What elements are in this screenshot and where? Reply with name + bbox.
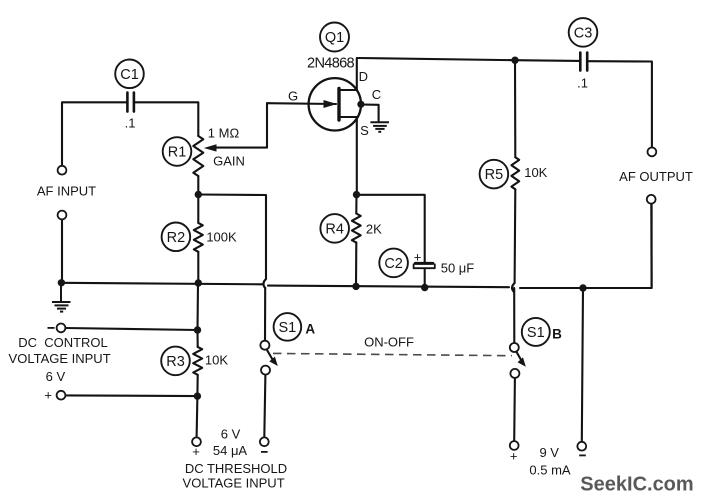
- minus sign (threshold): [261, 451, 268, 453]
- designator circle R2: [162, 223, 191, 252]
- ground (AF input bus): [52, 286, 71, 312]
- wire: C1 right plate to R1 top corner: [135, 102, 198, 136]
- resistor R4 2K: [352, 214, 361, 243]
- svg-text:0.5 mA: 0.5 mA: [529, 463, 571, 478]
- transistor Q1 2N4868 JFET envelope: [309, 78, 361, 130]
- svg-text:C2: C2: [384, 256, 403, 272]
- svg-text:C3: C3: [574, 26, 593, 42]
- junction: R3 bottom / DC control +: [194, 392, 201, 399]
- junction: C2 bottom at bus: [421, 284, 428, 291]
- svg-text:S1: S1: [527, 325, 545, 341]
- wire: R3 bottom zigzag to junction: [196, 375, 198, 396]
- wire: top rail from C3 right plate to AF output corner: [588, 61, 652, 147]
- svg-text:10K: 10K: [205, 353, 228, 368]
- svg-text:S1: S1: [279, 320, 297, 336]
- svg-text:R5: R5: [485, 167, 504, 183]
- designator circle C3: [569, 18, 598, 47]
- svg-text:10K: 10K: [524, 165, 547, 180]
- terminal: AF input bottom: [58, 211, 67, 220]
- svg-text:DC CONTROL: DC CONTROL: [18, 335, 108, 350]
- svg-text:A: A: [305, 322, 315, 337]
- capacitor C3: [580, 53, 587, 71]
- svg-text:100K: 100K: [206, 230, 237, 245]
- terminal: battery -: [577, 442, 586, 451]
- resistor R5 10K: [511, 157, 519, 189]
- junction: battery minus line at bus: [579, 284, 586, 291]
- switch S1B upper contact: [510, 343, 519, 352]
- wire: Q1 case pin to ground: [361, 105, 379, 122]
- wire: DC control + input to R3 bottom junction: [65, 394, 197, 397]
- junction: Q1 case pin C: [357, 101, 364, 108]
- terminal: battery +: [510, 441, 519, 450]
- designator circle S1 (section A): [274, 313, 302, 341]
- switch S1B blade arrowhead: [518, 357, 526, 366]
- wire: AF output lower terminal down to bus: [650, 204, 652, 288]
- svg-text:2N4868: 2N4868: [307, 56, 355, 72]
- wire: R1 bottom to R2 top: [197, 176, 199, 223]
- wire: R4 top junction to zigzag: [355, 195, 357, 214]
- designator circle C1: [115, 60, 144, 89]
- svg-text:54 μA: 54 μA: [213, 443, 248, 458]
- svg-text:B: B: [552, 326, 562, 341]
- terminal: AF output top: [648, 148, 657, 157]
- svg-text:G: G: [288, 89, 298, 104]
- svg-text:C: C: [372, 87, 381, 102]
- svg-text:SeekIC.com: SeekIC.com: [580, 474, 693, 496]
- svg-text:R1: R1: [168, 145, 187, 161]
- junction: R4 bottom at bus: [352, 283, 359, 290]
- wire: Q1 source vertical down to R4 top junction: [356, 117, 358, 195]
- resistor R3 10K: [193, 347, 202, 375]
- minus sign (battery): [579, 454, 586, 456]
- svg-text:AF OUTPUT: AF OUTPUT: [619, 169, 693, 184]
- junction: R5 top at rail: [511, 57, 518, 64]
- switch S1B lower contact: [510, 369, 519, 378]
- transistor Q1 drain lead: [339, 89, 357, 91]
- svg-text:2K: 2K: [366, 221, 382, 236]
- svg-text:9 V: 9 V: [539, 445, 559, 460]
- wire: source junction right to C2 top: [357, 195, 425, 262]
- svg-text:AF INPUT: AF INPUT: [37, 184, 96, 199]
- junction: bus / AF input ground: [58, 279, 65, 286]
- wire: S1B lower contact down to battery + terminal: [513, 378, 516, 441]
- wire: battery - line from bus to terminal: [582, 288, 583, 442]
- svg-text:C1: C1: [120, 67, 139, 83]
- svg-text:+: +: [414, 250, 422, 265]
- wire: S1 gang dashed link (ON-OFF): [273, 353, 512, 355]
- designator circle S1 (section B): [522, 318, 550, 346]
- minus sign (DC control): [48, 327, 55, 329]
- junction: R2 bottom at bus: [195, 279, 202, 286]
- terminal: AF input top: [58, 166, 67, 175]
- svg-text:+: +: [510, 449, 518, 464]
- svg-text:6 V: 6 V: [221, 427, 241, 442]
- wire: top rail from Q1 drain to C3 left plate: [358, 58, 579, 61]
- capacitor C1: [127, 93, 133, 112]
- junction: R1/R2 node: [195, 191, 202, 198]
- switch S1B blade: [516, 352, 521, 360]
- terminal: DC threshold -: [260, 437, 269, 446]
- resistor R2 100K: [194, 223, 203, 252]
- wire: C2 bottom to bus: [424, 269, 426, 288]
- terminal: AF output bottom: [647, 195, 656, 204]
- switch S1A blade arrowhead: [269, 357, 278, 366]
- svg-text:1 MΩ: 1 MΩ: [208, 126, 240, 141]
- wire: R1 wiper arm to gate riser: [213, 103, 267, 147]
- junction: Q1 source / R4 / C2 branch: [353, 191, 360, 198]
- svg-text:R4: R4: [325, 221, 344, 237]
- wire: AF input lower terminal down to ground bus: [61, 219, 63, 283]
- svg-text:+: +: [44, 388, 52, 403]
- wire: bus to R3 top junction: [196, 283, 199, 330]
- terminal: DC control -: [57, 324, 66, 333]
- capacitor C2 (polarized): [414, 263, 435, 268]
- svg-text:VOLTAGE INPUT: VOLTAGE INPUT: [183, 476, 285, 491]
- wire: Q1 drain vertical to top rail: [356, 58, 358, 90]
- terminal: DC threshold +: [192, 437, 201, 446]
- designator circle R3: [161, 347, 190, 376]
- svg-text:.1: .1: [577, 76, 588, 91]
- svg-text:6 V: 6 V: [46, 369, 66, 384]
- resistor R1 (GAIN potentiometer, 1 Mohm): [193, 136, 203, 176]
- svg-text:Q1: Q1: [325, 30, 344, 46]
- junction: R3 top / DC control -: [194, 326, 201, 333]
- svg-text:S: S: [360, 123, 369, 138]
- wire: gate lead into Q1: [267, 102, 336, 105]
- svg-text:VOLTAGE INPUT: VOLTAGE INPUT: [9, 351, 111, 366]
- svg-text:GAIN: GAIN: [213, 154, 245, 169]
- wire: R5 zigzag bottom across bus to S1B: [514, 189, 517, 283]
- svg-text:50 μF: 50 μF: [441, 261, 475, 276]
- wire: S1A lower contact down to threshold - terminal: [264, 374, 265, 437]
- wire: R2 bottom to bus: [197, 252, 199, 283]
- designator circle Q1: [320, 23, 349, 52]
- svg-text:ON-OFF: ON-OFF: [364, 335, 414, 350]
- designator circle R4: [320, 214, 349, 243]
- wire: DC control - input to R3 top junction: [65, 328, 197, 330]
- svg-text:DC THRESHOLD: DC THRESHOLD: [185, 461, 287, 476]
- ground (Q1 case): [370, 122, 389, 132]
- designator circle C2: [379, 249, 408, 278]
- designator circle R1: [163, 137, 192, 166]
- designator circle R5: [480, 160, 509, 189]
- svg-text:.1: .1: [125, 116, 136, 131]
- R1 wiper arrowhead: [204, 144, 217, 151]
- switch S1A upper contact: [260, 341, 269, 350]
- svg-text:D: D: [359, 69, 368, 84]
- switch S1A blade: [267, 350, 273, 360]
- svg-text:R3: R3: [166, 354, 185, 370]
- terminal: DC control +: [57, 391, 66, 400]
- wire: R3 bottom junction down to threshold + terminal: [196, 396, 199, 437]
- Q1 gate arrowhead: [324, 100, 338, 108]
- transistor Q1 channel bar: [337, 89, 340, 121]
- wire: R5 top rail junction down to zigzag: [514, 60, 516, 157]
- wire: R4 zigzag bottom to bus: [355, 243, 357, 287]
- switch S1A lower contact: [261, 366, 270, 375]
- wire: R3 top junction to zigzag: [196, 330, 198, 347]
- wire: AF input top terminal up to C1 line: [62, 102, 126, 166]
- transistor Q1 source lead: [339, 116, 357, 118]
- svg-text:+: +: [192, 444, 200, 459]
- wire: R1/R2 junction right and down across bus to S1A: [198, 195, 266, 280]
- svg-text:R2: R2: [167, 230, 186, 246]
- wire: ground bus (bottom horizontal): [61, 283, 262, 285]
